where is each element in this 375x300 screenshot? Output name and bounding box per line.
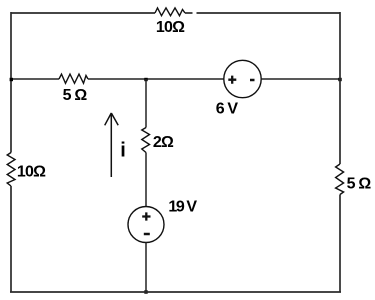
wire center branch middle — [145, 153, 147, 207]
wire middle horizontal left — [11, 78, 59, 80]
node junction right — [338, 78, 341, 81]
wire middle horizontal right — [261, 78, 340, 80]
node junction center — [144, 78, 147, 81]
wire middle horizontal center — [88, 78, 224, 80]
voltage source V2 19V circle — [128, 207, 164, 243]
svg-text:10Ω: 10Ω — [17, 164, 46, 181]
V2 plus sign — [142, 212, 150, 220]
resistor R3 5ohm zigzag — [59, 74, 88, 83]
svg-text:i: i — [120, 140, 126, 162]
wire left vertical upper — [10, 12, 12, 153]
node junction bottom — [144, 290, 147, 293]
current arrow i — [105, 113, 119, 177]
svg-text:6 V: 6 V — [216, 101, 239, 118]
wire top-right segment a — [185, 12, 193, 14]
V1 plus sign — [228, 76, 236, 84]
wire center branch upper — [145, 79, 147, 128]
V2 minus sign — [144, 233, 150, 236]
wire right vertical lower — [339, 195, 341, 293]
wire right vertical upper — [339, 12, 341, 164]
voltage source V1 6V circle — [224, 60, 261, 97]
svg-text:5 Ω: 5 Ω — [63, 87, 88, 104]
resistor R1 10ohm top zigzag — [155, 8, 185, 16]
resistor R2 10ohm left zigzag — [7, 153, 15, 187]
svg-text:19 V: 19 V — [168, 199, 197, 216]
svg-text:10Ω: 10Ω — [156, 19, 185, 36]
wire left vertical lower — [10, 186, 12, 292]
resistor R4 2ohm zigzag — [142, 128, 150, 153]
svg-text:2Ω: 2Ω — [153, 134, 174, 151]
node junction left — [10, 78, 13, 81]
wire top-right segment b — [197, 12, 341, 14]
wire center branch lower — [145, 243, 147, 293]
svg-text:5 Ω: 5 Ω — [347, 176, 372, 193]
wire bottom — [10, 291, 341, 293]
V1 minus sign — [250, 79, 255, 82]
wire top-left segment — [11, 12, 155, 14]
resistor R5 5ohm right zigzag — [336, 164, 344, 195]
